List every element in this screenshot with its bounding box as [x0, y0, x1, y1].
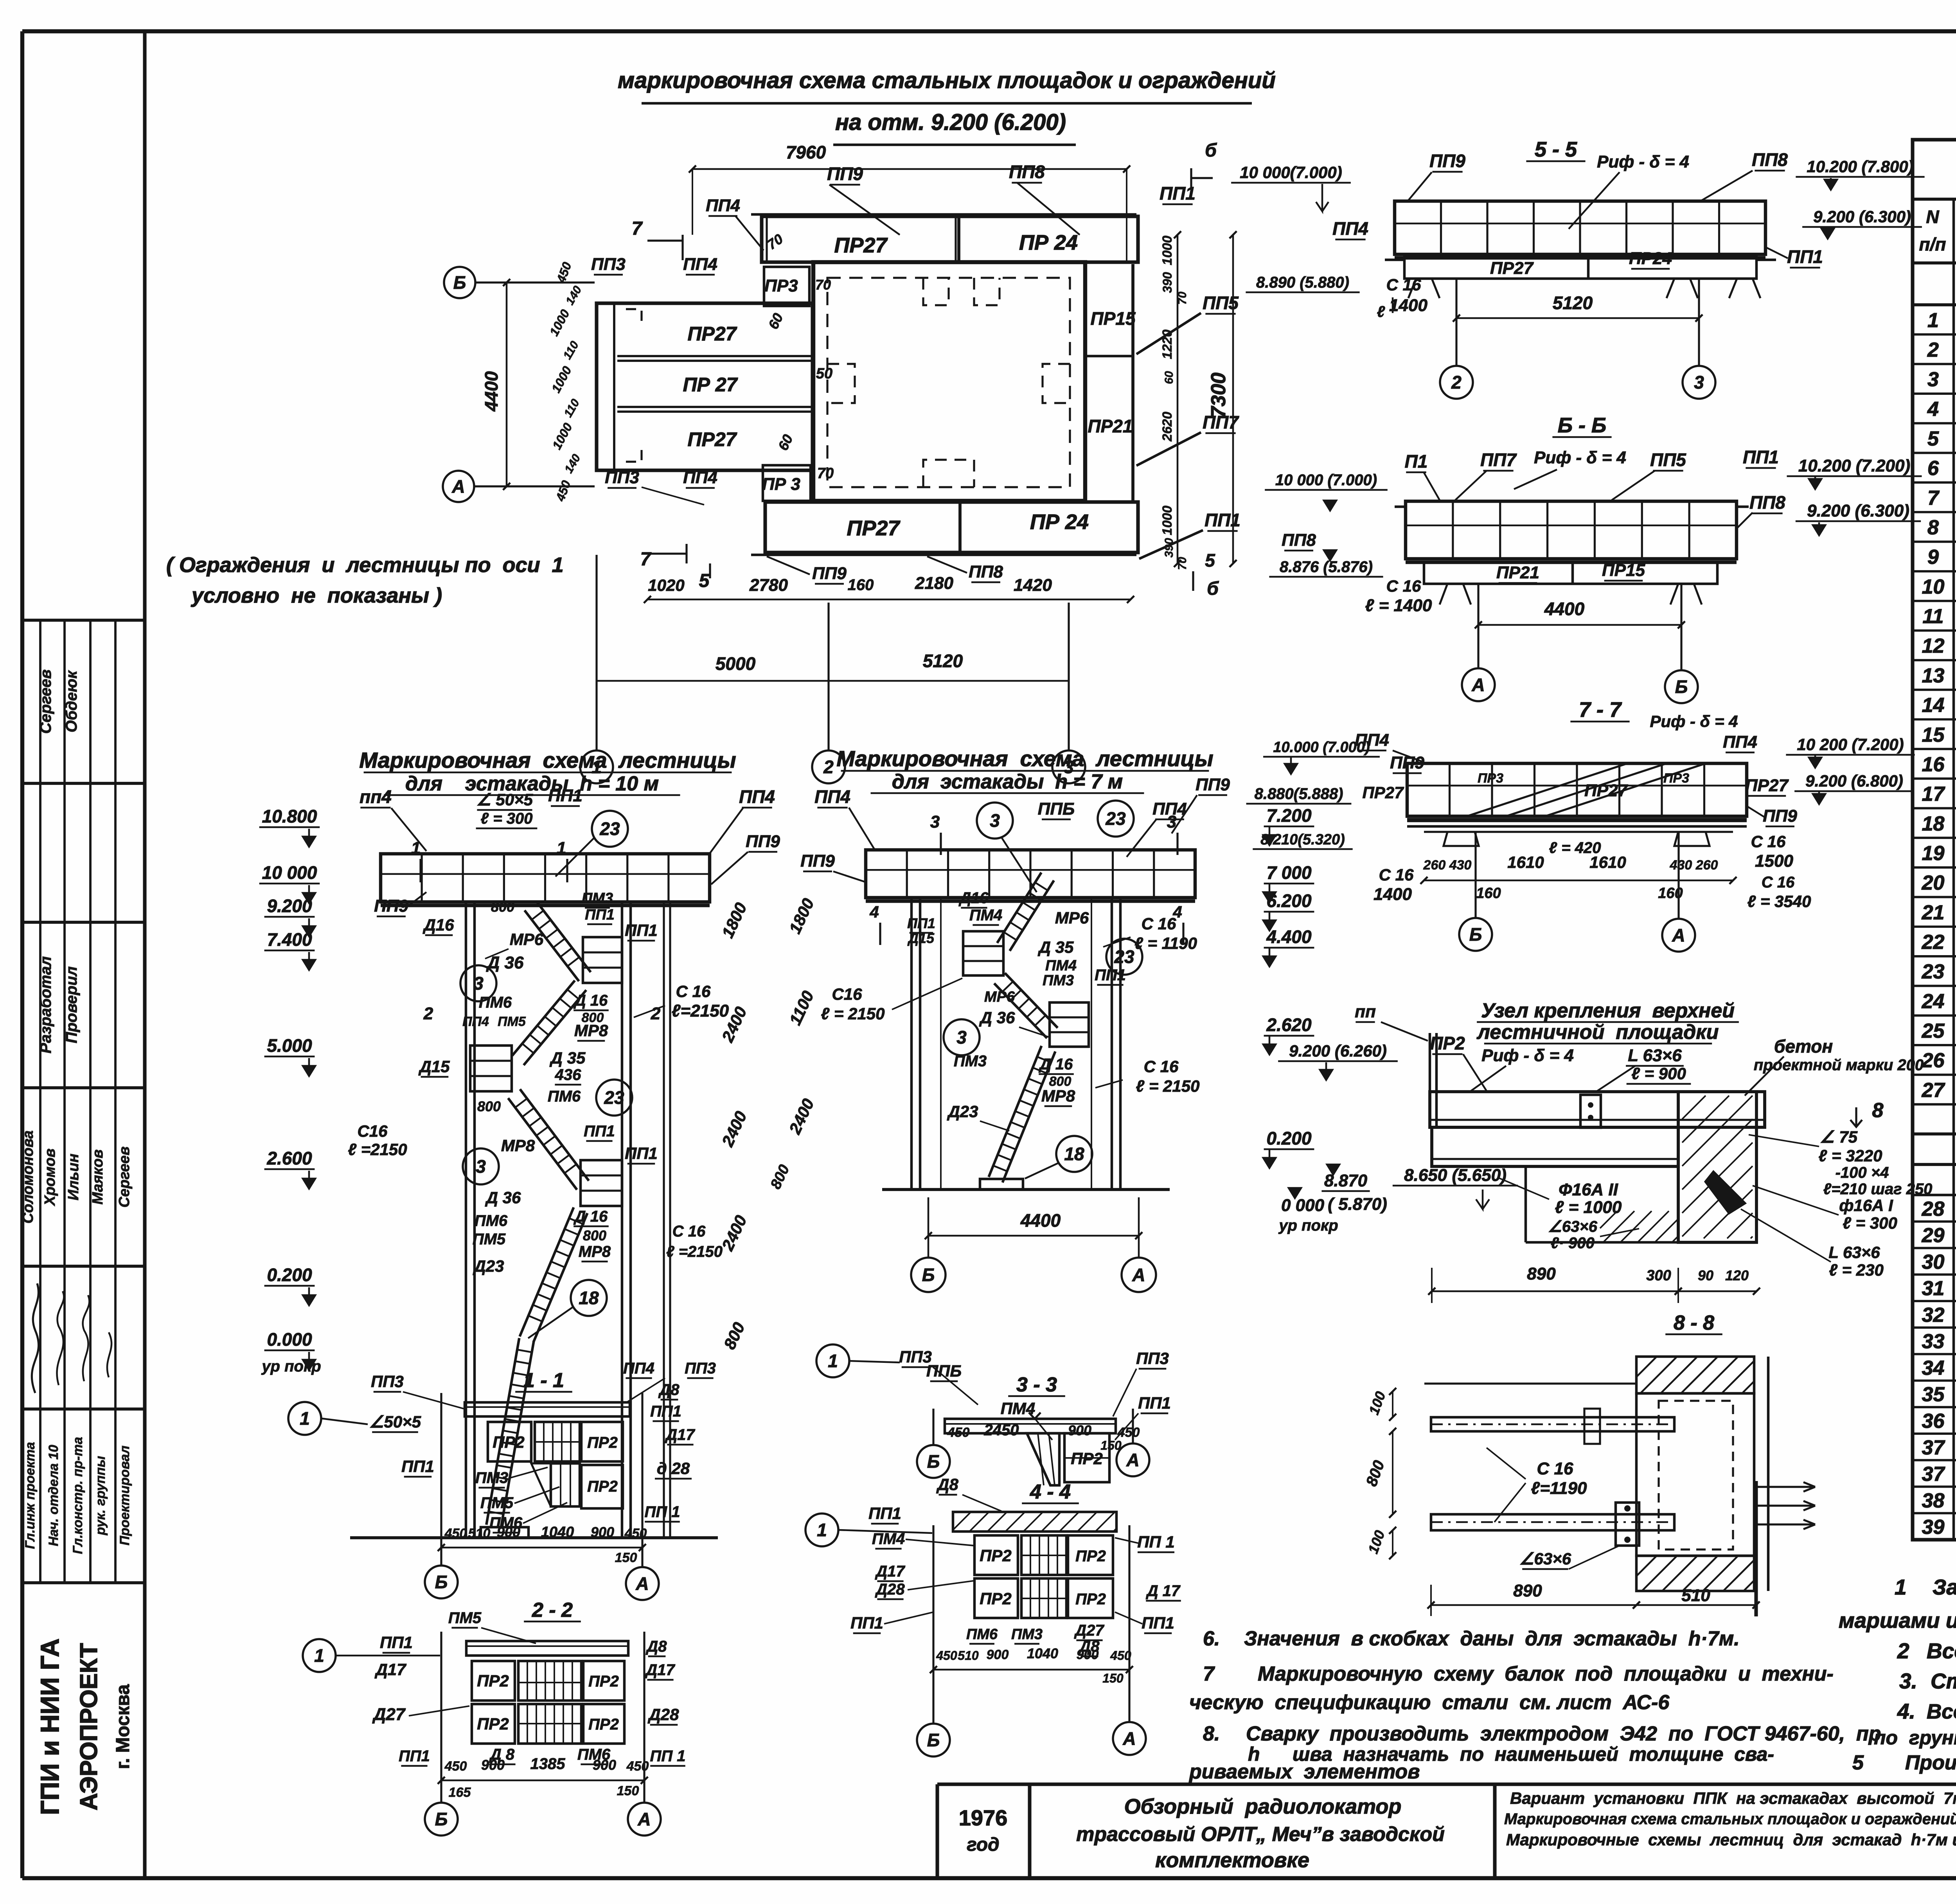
svg-text:Производство и приемку рабо: Производство и приемку работ вести в соо…: [1905, 1751, 1956, 1774]
svg-text:ℓ = 3220: ℓ = 3220: [1819, 1146, 1882, 1165]
svg-text:Б: Б: [1469, 924, 1482, 945]
svg-text:Д15: Д15: [907, 930, 935, 946]
svg-text:7960: 7960: [786, 142, 826, 162]
section 5-5 supports: [1385, 259, 1404, 261]
узел left post: [1429, 1033, 1431, 1129]
svg-text:ℓ =2150: ℓ =2150: [348, 1140, 407, 1159]
svg-text:г. Москва: г. Москва: [113, 1684, 133, 1769]
svg-text:0.200: 0.200: [267, 1265, 312, 1285]
svg-text:грунту из железного сурика: грунту из железного сурика „на олифе „ок…: [1909, 1727, 1956, 1749]
svg-text:35: 35: [1922, 1383, 1945, 1406]
svg-text:31: 31: [1922, 1277, 1945, 1300]
svg-text:ПР27: ПР27: [1745, 776, 1789, 795]
svg-text:1020: 1020: [648, 576, 684, 594]
plan left strip of top band: [766, 216, 768, 262]
svg-text:ПП8: ПП8: [1749, 492, 1785, 513]
svg-text:ПП8: ПП8: [1752, 149, 1788, 170]
svg-text:ПП1: ПП1: [584, 1123, 615, 1140]
svg-text:ПП1: ПП1: [907, 915, 935, 931]
section 6-6 railing band: [1406, 501, 1737, 559]
svg-text:пп4: пп4: [360, 786, 392, 807]
svg-text:390: 390: [1163, 538, 1176, 558]
svg-text:А: А: [1672, 925, 1685, 945]
svg-text:С 16: С 16: [1379, 866, 1414, 884]
svg-text:5: 5: [699, 570, 710, 591]
svg-text:14: 14: [1922, 694, 1945, 717]
svg-text:( 5.870): ( 5.870): [1328, 1195, 1387, 1214]
svg-text:ПП1: ПП1: [1787, 247, 1823, 267]
svg-text:3: 3: [473, 973, 484, 993]
svg-text:2.620: 2.620: [1266, 1015, 1312, 1035]
svg-text:ПМ3: ПМ3: [954, 1053, 987, 1070]
svg-text:120: 120: [1725, 1267, 1749, 1283]
svg-text:ПР2: ПР2: [1075, 1591, 1106, 1608]
svg-text:800: 800: [1049, 1074, 1071, 1089]
svg-text:ПП 1: ПП 1: [645, 1503, 680, 1521]
svg-text:27: 27: [1922, 1079, 1945, 1101]
stair h7 ground line: [882, 1188, 1170, 1191]
узел anchor angle: [1706, 1172, 1745, 1213]
svg-text:ПР2: ПР2: [980, 1546, 1012, 1565]
svg-text:450: 450: [947, 1425, 970, 1440]
svg-text:ПМ5: ПМ5: [480, 1494, 514, 1512]
svg-text:ПП8: ПП8: [1282, 531, 1316, 550]
section 8-8 embed plates: [1584, 1409, 1600, 1444]
section 2-2 boxes row2: [472, 1704, 515, 1744]
svg-text:4: 4: [1927, 398, 1939, 421]
svg-text:МР6: МР6: [984, 989, 1015, 1005]
svg-text:1: 1: [817, 1520, 827, 1540]
svg-text:ПМ6: ПМ6: [479, 994, 512, 1011]
svg-text:7 000: 7 000: [1266, 862, 1312, 883]
svg-text:бетон: бетон: [1774, 1036, 1833, 1056]
svg-text:Б: Б: [1675, 677, 1688, 697]
svg-text:20: 20: [1922, 872, 1945, 894]
sheet frame: [22, 29, 1956, 33]
svg-text:ПП9: ПП9: [800, 851, 835, 871]
svg-text:п/п: п/п: [1919, 234, 1946, 254]
svg-text:ПП4: ПП4: [462, 1014, 489, 1029]
svg-text:С 16: С 16: [1142, 914, 1176, 933]
svg-text:8.880(5.888): 8.880(5.888): [1255, 785, 1343, 803]
svg-text:450: 450: [936, 1648, 957, 1663]
section 1-1 top band: [465, 1402, 630, 1416]
svg-text:18: 18: [1064, 1144, 1084, 1164]
svg-text:Сергеев: Сергеев: [37, 669, 54, 734]
svg-text:Б: Б: [453, 272, 466, 293]
stair h7 top platform band: [866, 850, 1195, 898]
stair h7 landing platform right: [1050, 1002, 1089, 1047]
svg-text:Д16: Д16: [958, 889, 989, 907]
svg-text:10 000 (7.000): 10 000 (7.000): [1275, 472, 1377, 489]
svg-text:ПП1: ПП1: [625, 921, 658, 939]
section 2-2 boxes row1: [472, 1661, 515, 1701]
svg-text:2450: 2450: [984, 1422, 1019, 1439]
svg-text:N: N: [1926, 207, 1939, 227]
section 5-5 beams under: [1404, 255, 1756, 279]
plan view top band ПР27/ПР24: [762, 216, 1138, 262]
svg-text:ПП4: ПП4: [683, 468, 717, 487]
table header row: [1913, 261, 1956, 265]
svg-text:Маяков: Маяков: [90, 1149, 106, 1204]
svg-text:С 16: С 16: [1537, 1459, 1573, 1478]
svg-text:50: 50: [816, 365, 832, 382]
svg-text:150: 150: [1100, 1438, 1122, 1452]
svg-text:ПР24: ПР24: [1629, 249, 1672, 268]
svg-text:8: 8: [1927, 516, 1939, 539]
svg-text:А: А: [1132, 1265, 1145, 1285]
svg-text:5: 5: [1927, 427, 1939, 450]
svg-text:300: 300: [1646, 1267, 1671, 1284]
section 8-8 concrete top cap: [1636, 1357, 1754, 1393]
svg-text:Риф - δ = 4: Риф - δ = 4: [1534, 448, 1626, 467]
svg-text:С 16: С 16: [1386, 577, 1421, 595]
svg-text:450: 450: [624, 1526, 647, 1541]
svg-text:ПР21: ПР21: [1496, 563, 1539, 582]
svg-text:маркировочная схема стальных п: маркировочная схема стальных площадок и …: [618, 68, 1276, 93]
svg-text:3.: 3.: [1899, 1669, 1917, 1693]
svg-text:Д28: Д28: [875, 1581, 905, 1598]
svg-text:Обзорный радиолокатор: Обзорный радиолокатор: [1124, 1795, 1402, 1818]
svg-text:∠ 50×5: ∠ 50×5: [476, 790, 533, 809]
svg-text:7300: 7300: [1207, 373, 1230, 418]
svg-text:900: 900: [1068, 1422, 1091, 1438]
svg-text:риваемых элементов: риваемых элементов: [1188, 1760, 1420, 1783]
svg-text:7: 7: [1203, 1663, 1215, 1685]
svg-text:1: 1: [314, 1645, 324, 1666]
svg-text:∠ 75: ∠ 75: [1820, 1128, 1858, 1146]
svg-text:1: 1: [300, 1408, 310, 1429]
svg-text:Стальные площадки крепятся к: Стальные площадки крепятся к несущим бал…: [1931, 1669, 1956, 1693]
svg-text:1000: 1000: [1160, 506, 1175, 535]
section 4-4 boxes row2: [974, 1578, 1018, 1618]
svg-text:10 200 (7.200): 10 200 (7.200): [1797, 735, 1904, 754]
stair h7 flight 2: [994, 983, 1047, 1038]
svg-text:АЭРОПРОЕКТ: АЭРОПРОЕКТ: [76, 1643, 102, 1810]
svg-text:ℓ = 1400: ℓ = 1400: [1365, 596, 1432, 615]
svg-text:ПП3: ПП3: [605, 468, 639, 487]
svg-text:33: 33: [1922, 1330, 1945, 1353]
svg-text:С 16: С 16: [1386, 275, 1421, 294]
stair h7 landing platform left: [963, 931, 1003, 975]
section 2-2 top band: [466, 1641, 628, 1656]
stair h10 landing platform 2: [470, 1046, 512, 1091]
svg-text:60: 60: [1163, 371, 1176, 384]
svg-text:ПР2: ПР2: [477, 1715, 509, 1733]
svg-text:ПП9: ПП9: [374, 896, 408, 916]
svg-text:ПП1: ПП1: [868, 1504, 901, 1522]
svg-text:1000: 1000: [1160, 236, 1175, 265]
table outer border: [1913, 140, 1956, 1540]
section 7-7 dims: [1424, 880, 1733, 882]
svg-text:3: 3: [476, 1156, 486, 1177]
svg-text:10 000(7.000): 10 000(7.000): [1240, 163, 1342, 182]
svg-text:10 000: 10 000: [262, 862, 317, 883]
svg-text:ℓ = 1000: ℓ = 1000: [1555, 1198, 1622, 1217]
svg-text:проектной марки 200: проектной марки 200: [1754, 1056, 1924, 1074]
svg-text:5.000: 5.000: [267, 1035, 312, 1056]
svg-text:15: 15: [1922, 723, 1945, 746]
svg-text:32: 32: [1922, 1304, 1945, 1326]
svg-text:450: 450: [626, 1759, 649, 1774]
plan ПР3 cells left: [764, 267, 809, 306]
svg-text:Все замаркированные узлы: Все замаркированные узлы приняты по сери…: [1927, 1639, 1956, 1663]
svg-text:160: 160: [1476, 885, 1501, 902]
svg-text:28: 28: [1922, 1198, 1945, 1220]
svg-text:ПМ6: ПМ6: [475, 1212, 508, 1229]
svg-text:4400: 4400: [481, 371, 502, 412]
svg-text:19: 19: [1922, 842, 1945, 865]
section 6-6 beams under: [1424, 562, 1717, 584]
svg-text:ПП8: ПП8: [969, 562, 1003, 581]
svg-text:25: 25: [1922, 1020, 1945, 1042]
svg-text:10.200 (7.800): 10.200 (7.800): [1807, 157, 1913, 176]
svg-text:ℓ = 2150: ℓ = 2150: [821, 1004, 885, 1023]
svg-text:б: б: [1207, 578, 1219, 599]
svg-text:8 - 8: 8 - 8: [1674, 1312, 1714, 1334]
table subheader для эстакады h=7м: [1913, 303, 1956, 306]
section 3-3 boxes: [1027, 1433, 1059, 1485]
svg-text:ПП9: ПП9: [1429, 151, 1465, 171]
svg-text:ПП1: ПП1: [380, 1633, 413, 1652]
svg-text:21: 21: [1922, 901, 1945, 924]
svg-text:ПП8: ПП8: [1009, 162, 1045, 182]
svg-text:70: 70: [1176, 292, 1189, 305]
svg-text:Б: Б: [927, 1451, 940, 1472]
svg-text:7 - 7: 7 - 7: [1579, 698, 1622, 722]
stair h10 flight 5: [486, 1338, 519, 1525]
svg-text:Риф - δ = 4: Риф - δ = 4: [1481, 1046, 1574, 1065]
svg-text:ℓ = 3540: ℓ = 3540: [1747, 892, 1811, 911]
section 3-3 labels: [816, 1344, 849, 1377]
svg-text:МР6: МР6: [510, 930, 544, 948]
svg-text:1420: 1420: [1014, 576, 1052, 595]
svg-text:Д 8: Д 8: [489, 1746, 515, 1763]
svg-text:ℓ = 900: ℓ = 900: [1631, 1064, 1686, 1083]
stamp signatures: [32, 1283, 38, 1393]
svg-text:Узел крепления верхней: Узел крепления верхней: [1481, 999, 1735, 1022]
svg-text:1: 1: [411, 839, 421, 858]
svg-text:Риф - δ = 4: Риф - δ = 4: [1650, 712, 1738, 731]
plan right vertical dims: [1177, 235, 1179, 563]
svg-text:Все открытые стальные эл-ты: Все открытые стальные эл-ты окрасить за …: [1927, 1700, 1956, 1723]
svg-text:МР8: МР8: [1041, 1087, 1075, 1105]
svg-text:3: 3: [930, 812, 940, 831]
svg-text:Зазоры на стыках стальных п: Зазоры на стыках стальных площадок между…: [1933, 1575, 1956, 1599]
svg-text:800: 800: [477, 1098, 501, 1114]
узел platform: [1430, 1092, 1765, 1127]
section 8-8 dims: [1431, 1604, 1636, 1606]
svg-text:Маркировочные схемы лестниц: Маркировочные схемы лестниц для эстакад …: [1506, 1830, 1956, 1849]
svg-text:ℓ: ℓ: [1377, 303, 1385, 320]
svg-text:2 - 2: 2 - 2: [532, 1599, 573, 1621]
svg-text:2780: 2780: [749, 576, 788, 595]
svg-text:Д 16: Д 16: [573, 1208, 608, 1225]
svg-text:ℓ = 2150: ℓ = 2150: [1136, 1077, 1200, 1095]
stair h10 columns: [465, 902, 467, 1538]
svg-text:800: 800: [583, 1227, 606, 1244]
svg-text:Маркировочная схема лестницы: Маркировочная схема лестницы: [836, 746, 1213, 771]
svg-text:0 000: 0 000: [1281, 1196, 1325, 1215]
svg-text:ПП3: ПП3: [685, 1360, 716, 1377]
svg-text:436: 436: [555, 1066, 581, 1083]
svg-text:4400: 4400: [1544, 599, 1585, 619]
svg-text:ПП1: ПП1: [399, 1747, 430, 1765]
svg-text:ℓ =2150: ℓ =2150: [666, 1243, 723, 1260]
svg-text:150: 150: [617, 1783, 639, 1798]
plan axis circles 1 2 3: [580, 750, 613, 783]
svg-text:ПР27: ПР27: [1584, 781, 1628, 800]
svg-text:23: 23: [599, 819, 620, 839]
svg-text:10.800: 10.800: [262, 806, 317, 826]
stair h7 columns: [910, 898, 913, 1190]
section 8-8 rail beam 1: [1431, 1417, 1674, 1431]
svg-text:ПП1: ПП1: [1095, 966, 1126, 984]
svg-text:ПР21: ПР21: [1088, 416, 1133, 436]
svg-text:1500: 1500: [1755, 851, 1793, 871]
plan right column ПР15/ПР21 cells: [1084, 267, 1087, 501]
section 8-8 left dims: [1392, 1391, 1393, 1417]
svg-text:ф16А I: ф16А I: [1839, 1196, 1893, 1215]
svg-text:2: 2: [651, 1004, 661, 1023]
svg-text:ПП1: ПП1: [850, 1614, 883, 1632]
svg-text:2: 2: [1897, 1639, 1909, 1663]
svg-text:1976: 1976: [959, 1805, 1008, 1830]
svg-text:ℓ = 230: ℓ = 230: [1829, 1261, 1884, 1279]
узел lower concrete: [1525, 1167, 1527, 1242]
section 2-2 axis lines: [440, 1632, 442, 1802]
svg-text:ПП9: ПП9: [1763, 806, 1797, 826]
svg-text:ПП7: ПП7: [1480, 450, 1517, 470]
svg-text:Д17: Д17: [374, 1660, 406, 1679]
svg-text:ℓ· 900: ℓ· 900: [1551, 1235, 1595, 1252]
svg-text:Значения в скобках даны для: Значения в скобках даны для эстакады h·7…: [1244, 1627, 1740, 1650]
svg-text:ℓ=2150: ℓ=2150: [672, 1001, 729, 1020]
svg-text:16: 16: [1922, 753, 1945, 776]
svg-text:70: 70: [1176, 557, 1189, 570]
svg-text:ПМ3: ПМ3: [1043, 972, 1074, 989]
svg-text:Д8: Д8: [936, 1475, 958, 1494]
svg-text:ПР15: ПР15: [1091, 308, 1136, 329]
svg-text:ПМ6: ПМ6: [489, 1514, 523, 1531]
section 8-8 right wall line: [1767, 1357, 1770, 1591]
svg-text:9.200 (6.300): 9.200 (6.300): [1807, 501, 1909, 520]
svg-text:ПМ5: ПМ5: [448, 1609, 482, 1627]
svg-text:условно не показаны ): условно не показаны ): [191, 584, 442, 607]
svg-text:Разработал: Разработал: [37, 956, 54, 1054]
svg-text:год: год: [967, 1834, 999, 1855]
svg-text:ПР2: ПР2: [980, 1589, 1012, 1608]
svg-text:С16: С16: [832, 985, 862, 1003]
stair h10 flight 1: [525, 911, 579, 981]
section 8-8 top line: [1424, 1382, 1636, 1384]
svg-text:9.200: 9.200: [267, 896, 312, 916]
svg-text:А: А: [1122, 1728, 1136, 1749]
stair h7 axis circles: [911, 1258, 946, 1292]
section 7-7 railing band: [1407, 763, 1747, 816]
section 1-1 dims: [441, 1547, 642, 1549]
svg-text:Б - Б: Б - Б: [1558, 414, 1606, 437]
svg-text:1040: 1040: [1027, 1645, 1058, 1661]
stair h10 flight 3: [508, 1098, 577, 1190]
svg-text:ПР27: ПР27: [688, 323, 737, 345]
stair h10 flight 2: [512, 981, 575, 1056]
plan bottom dims row1: [647, 599, 1131, 601]
svg-text:Д27: Д27: [1074, 1622, 1104, 1639]
svg-text:150: 150: [1102, 1671, 1124, 1685]
section 2-2 labels: [303, 1639, 336, 1672]
svg-text:Д 17: Д 17: [1146, 1582, 1181, 1600]
svg-text:4.400: 4.400: [1266, 927, 1312, 947]
svg-text:ПМ4: ПМ4: [872, 1530, 905, 1548]
svg-text:ПМ5: ПМ5: [498, 1014, 526, 1029]
svg-text:ПР27: ПР27: [834, 234, 888, 257]
svg-text:ℓ = 300: ℓ = 300: [481, 810, 533, 827]
svg-text:26: 26: [1922, 1049, 1945, 1072]
svg-text:ПР3: ПР3: [1663, 771, 1689, 786]
svg-text:Д 35: Д 35: [1038, 938, 1074, 956]
section 7-7 axes: [1474, 832, 1476, 918]
svg-text:С 16: С 16: [676, 982, 711, 1001]
svg-text:23: 23: [1922, 961, 1945, 983]
svg-text:пп: пп: [1355, 1002, 1376, 1021]
stair h7 flight 1: [997, 873, 1041, 943]
svg-text:-100 ×4: -100 ×4: [1836, 1164, 1889, 1181]
svg-text:на отм. 9.200 (6.200): на отм. 9.200 (6.200): [835, 110, 1066, 135]
svg-text:Соломонова: Соломонова: [20, 1130, 36, 1224]
svg-text:Б: Б: [922, 1265, 935, 1285]
svg-text:Ф16А II: Ф16А II: [1559, 1180, 1618, 1199]
svg-text:8.876 (5.876): 8.876 (5.876): [1280, 558, 1373, 576]
svg-text:70: 70: [817, 465, 834, 482]
svg-text:70: 70: [815, 277, 831, 293]
svg-text:ПП3: ПП3: [371, 1372, 404, 1391]
svg-text:8.890 (5.880): 8.890 (5.880): [1256, 274, 1349, 291]
table rows block 1: [1913, 333, 1956, 336]
svg-text:МР8: МР8: [579, 1243, 611, 1260]
svg-text:160: 160: [1658, 885, 1683, 902]
svg-text:ПП4: ПП4: [1332, 218, 1368, 239]
section 6-6 axes: [1477, 584, 1479, 668]
svg-text:лестничной площадки: лестничной площадки: [1476, 1021, 1719, 1044]
svg-text:комплектовке: комплектовке: [1155, 1848, 1309, 1872]
svg-text:Д15: Д15: [418, 1057, 450, 1076]
plan dim 7300 rotated: [1232, 235, 1234, 563]
svg-text:ПП4: ПП4: [683, 255, 717, 274]
svg-text:3: 3: [1694, 372, 1704, 392]
svg-text:ППБ: ППБ: [1038, 799, 1075, 819]
svg-text:А: А: [1126, 1450, 1139, 1470]
svg-text:Проектировал: Проектировал: [117, 1445, 132, 1545]
svg-text:ПП9: ПП9: [812, 564, 847, 583]
svg-text:3 - 3: 3 - 3: [1016, 1373, 1057, 1396]
section 5-5 railing band: [1395, 201, 1765, 254]
svg-text:2.600: 2.600: [266, 1148, 312, 1168]
stair h7 flight 3: [989, 1046, 1041, 1177]
table title row: [1913, 198, 1956, 201]
svg-text:9.200 (6.800): 9.200 (6.800): [1805, 772, 1903, 790]
section 4-4 hatched band: [953, 1512, 1116, 1531]
svg-text:ℓ = 300: ℓ = 300: [1843, 1214, 1897, 1232]
svg-text:Маркировочную схему балок п: Маркировочную схему балок под площадки и…: [1258, 1663, 1834, 1685]
svg-text:МР6: МР6: [1055, 909, 1089, 927]
svg-text:38: 38: [1922, 1489, 1945, 1512]
svg-text:ПМ6: ПМ6: [577, 1746, 611, 1763]
svg-text:∠50×5: ∠50×5: [369, 1413, 421, 1431]
svg-text:ур покр: ур покр: [1278, 1217, 1338, 1234]
svg-text:С 16: С 16: [672, 1223, 706, 1240]
svg-text:трассовый ОРЛТ„ Меч”в заводско: трассовый ОРЛТ„ Меч”в заводской: [1076, 1823, 1445, 1846]
